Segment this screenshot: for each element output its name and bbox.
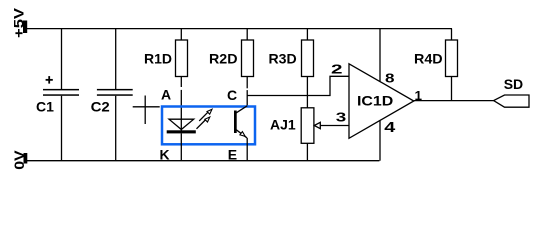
plus cross symbol (133, 96, 160, 125)
wire pin 8 (379, 29, 381, 82)
wire C1 top (61, 29, 63, 89)
svg-text:C2: C2 (91, 99, 110, 115)
wire C2 top (115, 29, 117, 89)
svg-text:8: 8 (385, 70, 395, 85)
resistor R1D (176, 40, 188, 77)
phototransistor base bar (234, 111, 237, 134)
potentiometer AJ1 body (301, 108, 314, 144)
wire R2D to collector (with pin gap) (246, 77, 248, 89)
output wire pin1 to SD (414, 100, 494, 102)
svg-text:+5V: +5V (11, 7, 27, 38)
svg-text:2: 2 (331, 62, 343, 77)
svg-text:0V: 0V (11, 150, 27, 170)
svg-text:R4D: R4D (414, 51, 443, 67)
wire R1D top (180, 29, 182, 40)
light arrow 1 (199, 109, 212, 121)
svg-text:1: 1 (415, 88, 423, 103)
resistor R4D (446, 40, 458, 77)
0V terminal tick (24, 153, 28, 164)
collector line (236, 106, 247, 113)
+5V terminal tick (23, 21, 27, 34)
emitter line (236, 130, 247, 138)
wire C1 bottom (61, 96, 63, 161)
SD connector (494, 95, 529, 107)
resistor R2D (242, 40, 254, 77)
0V rail (27, 160, 380, 162)
light arrow 2 (197, 117, 210, 129)
svg-text:E: E (228, 147, 237, 163)
svg-text:4: 4 (384, 119, 396, 136)
svg-text:R2D: R2D (209, 51, 238, 67)
LED cathode bar (167, 130, 196, 133)
svg-text:SD: SD (504, 76, 523, 92)
svg-text:C: C (227, 87, 237, 103)
emitter arrow (240, 132, 245, 137)
svg-text:A: A (161, 87, 171, 103)
LED triangle (169, 119, 194, 129)
wire wiper to pin 3 (320, 125, 349, 127)
svg-text:R1D: R1D (144, 51, 172, 67)
wire R4D to output (451, 77, 453, 101)
svg-text:K: K (160, 147, 170, 163)
wire R4D top (451, 29, 453, 40)
svg-text:AJ1: AJ1 (270, 117, 296, 133)
wire R2D top (246, 29, 248, 40)
wire collector node to pin 2 (247, 76, 349, 95)
C1 plus sign (46, 76, 53, 84)
svg-text:R3D: R3D (269, 51, 297, 67)
+5V rail (27, 28, 453, 30)
wire emitter to 0V (246, 138, 248, 161)
wire AJ1 bottom (306, 143, 308, 160)
capacitor C2 (97, 89, 133, 96)
AJ1 wiper arrow (314, 122, 320, 128)
wire R3D top (306, 29, 308, 40)
optocoupler box (162, 107, 255, 145)
wire R3D to potentiometer (306, 77, 308, 108)
wire LED cathode to 0V (180, 133, 182, 160)
resistor R3D (302, 40, 314, 77)
capacitor C1 (43, 89, 79, 96)
op-amp IC1D triangle (349, 64, 414, 139)
wire R1D to opto anode (with pin gap) (180, 77, 182, 88)
wire pin 4 (379, 120, 381, 160)
wire C2 bottom (115, 96, 117, 161)
svg-text:IC1D: IC1D (357, 93, 393, 109)
svg-text:C1: C1 (36, 99, 54, 115)
svg-text:3: 3 (336, 110, 347, 125)
